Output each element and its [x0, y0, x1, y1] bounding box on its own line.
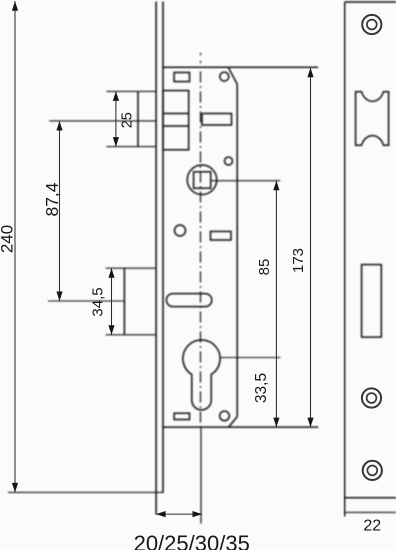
faceplate side view right line / body left edge	[162, 2, 164, 493]
top fixing hole rectangle	[174, 73, 189, 82]
follower square spindle hole	[194, 172, 211, 188]
front plate bottom edge	[345, 497, 396, 499]
lock body bottom edge + 173/33,5 bottom extension	[162, 426, 318, 428]
front plate top edge	[345, 1, 396, 3]
25 bottom arrow	[113, 137, 119, 147]
240 dimension line	[14, 1, 16, 492]
240 top arrow	[12, 1, 18, 11]
faceplate side view left line	[155, 2, 157, 515]
centreline top dot 1	[200, 53, 202, 55]
latch front face	[356, 92, 389, 146]
25 top arrow	[113, 91, 119, 101]
front plate left edge	[344, 2, 346, 517]
25 dimension line	[115, 91, 117, 146]
bottom right circle hole	[220, 411, 230, 421]
87,4 bottom arrow	[56, 292, 62, 302]
latch centre line / 87,4 top extension	[49, 120, 156, 122]
svg-text:34,5: 34,5	[90, 287, 107, 316]
deadbolt front edge	[123, 268, 125, 335]
svg-text:240: 240	[0, 225, 16, 253]
34,5 dimension line	[111, 268, 113, 335]
173 top arrow	[307, 68, 313, 78]
oval slot	[166, 294, 211, 307]
deadbolt top edge + 34,5 top extension	[106, 267, 156, 269]
240 bottom arrow	[12, 483, 18, 493]
small circle left of centreline	[175, 225, 186, 236]
latch cage division upper	[163, 113, 189, 115]
87,4 top arrow	[56, 121, 62, 131]
backset right arrow	[193, 511, 203, 517]
dash-dot vertical centreline	[200, 72, 202, 428]
svg-text:22: 22	[363, 518, 381, 535]
22 dimension line	[345, 511, 396, 513]
centreline lower solid extension	[200, 427, 202, 523]
top screw hole outer	[362, 15, 381, 34]
faceplate bottom cap + 240 extension line	[8, 491, 164, 493]
small circle below chamfer	[225, 157, 233, 165]
follower circle	[187, 165, 217, 195]
svg-text:85: 85	[256, 259, 273, 276]
173 dimension line	[310, 68, 312, 427]
deadbolt bottom edge + 34,5 bottom extension	[106, 334, 156, 336]
lock body top-right chamfer	[228, 67, 237, 84]
bottom fixing hole rectangle	[174, 413, 189, 419]
lock body top edge + 173 top extension	[162, 66, 318, 68]
middle screw hole outer	[362, 388, 381, 407]
latch bolt front edge	[137, 91, 139, 146]
small slot rectangle right	[211, 231, 232, 240]
87,4 dimension line	[59, 121, 61, 301]
85 / 33,5 dimension line	[275, 181, 277, 427]
33,5 bottom arrow	[273, 418, 279, 428]
backset dimension line	[156, 513, 202, 515]
svg-text:87,4: 87,4	[42, 182, 62, 216]
middle slot rectangle	[202, 114, 232, 126]
svg-text:25: 25	[120, 112, 136, 128]
lock body bottom-right chamfer	[229, 417, 238, 428]
34,5 bottom arrow	[108, 325, 114, 335]
lock body right edge	[236, 84, 238, 417]
latch cage division lower	[163, 125, 189, 127]
173 bottom arrow	[307, 418, 313, 428]
bottom screw hole inner	[367, 466, 377, 476]
latch bolt bottom edge + 25 bottom extension	[106, 146, 156, 148]
middle screw hole inner	[367, 393, 377, 403]
34,5 top arrow	[108, 268, 114, 278]
follower centre extension line	[211, 180, 281, 182]
deadbolt centre line / 87,4 bottom extension	[48, 300, 124, 302]
euro cylinder profile	[183, 340, 220, 410]
svg-text:20/25/30/35: 20/25/30/35	[134, 531, 250, 550]
latch bolt top edge + 25 top extension	[106, 90, 156, 92]
svg-text:33,5: 33,5	[253, 373, 270, 403]
centreline top dot 2	[200, 61, 202, 63]
backset left arrow	[156, 511, 166, 517]
svg-text:173: 173	[290, 248, 307, 273]
top right circle hole	[220, 72, 229, 81]
bottom screw hole outer	[363, 461, 382, 480]
top screw hole inner	[367, 20, 377, 30]
85 top arrow	[273, 181, 279, 191]
plate slot cutout	[362, 265, 382, 338]
latch cage block	[163, 91, 189, 150]
cylinder centre extension line	[220, 357, 280, 359]
